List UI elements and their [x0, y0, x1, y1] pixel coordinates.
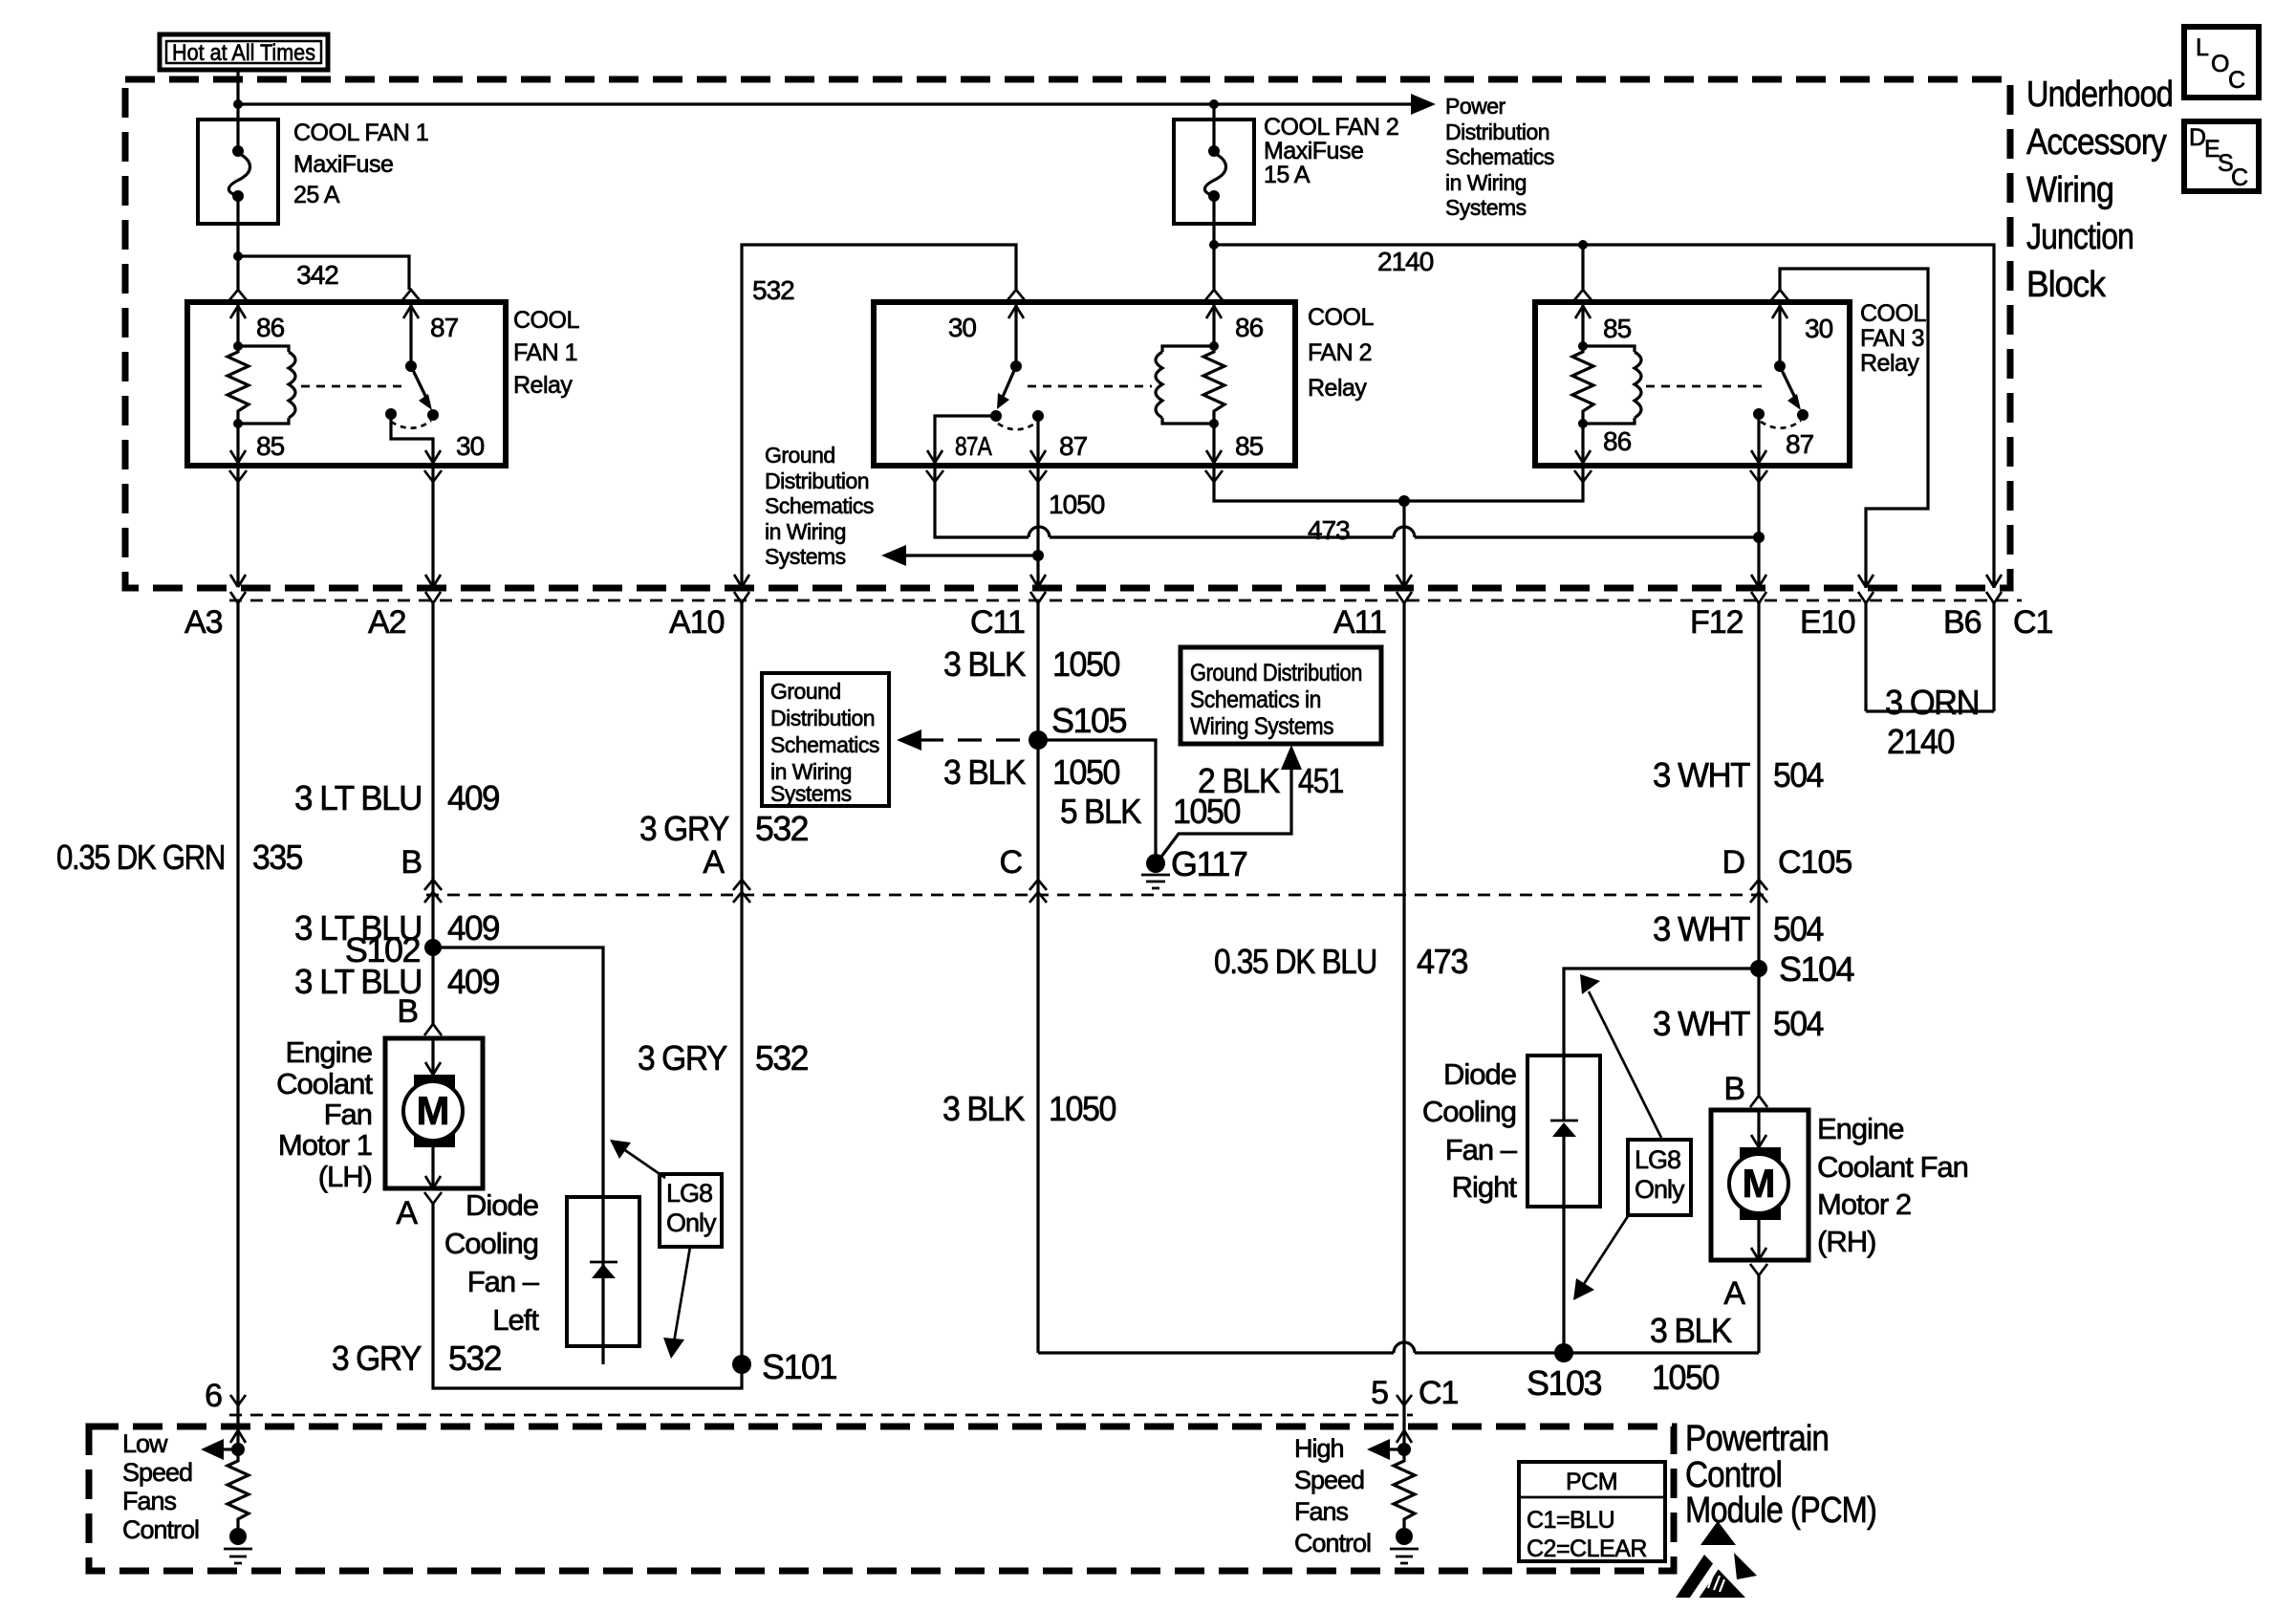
- connector C1 row dashed line: [229, 599, 2022, 602]
- svg-text:Systems: Systems: [770, 781, 852, 806]
- svg-text:87: 87: [430, 313, 459, 342]
- svg-text:Diode: Diode: [466, 1188, 538, 1222]
- svg-text:5: 5: [1371, 1375, 1388, 1411]
- svg-text:COOL FAN 2: COOL FAN 2: [1264, 114, 1398, 141]
- svg-text:342: 342: [296, 260, 338, 290]
- K2 pin 86 terminal: [1205, 290, 1264, 346]
- hop over A11 wire: [1394, 527, 1415, 537]
- svg-text:Wiring: Wiring: [2026, 170, 2113, 210]
- svg-text:Underhood: Underhood: [2026, 75, 2173, 115]
- label 3 WHT 504 (below D): [1653, 909, 1823, 948]
- svg-text:C: C: [2231, 164, 2248, 191]
- svg-text:409: 409: [447, 962, 499, 1001]
- label 0.35 DK GRN 335: [56, 838, 302, 877]
- svg-text:C1: C1: [2013, 604, 2053, 641]
- PCM connector legend box: [1519, 1462, 1665, 1562]
- node: junction on 2140 at relay3 coil drop: [1578, 240, 1588, 250]
- inline connector B (C105): [401, 844, 442, 947]
- svg-text:Engine: Engine: [1817, 1112, 1904, 1145]
- svg-text:87: 87: [1786, 429, 1814, 459]
- inline connector D (C105): [1722, 844, 1852, 903]
- relay K3: COOL FAN 3 Relay: [1535, 302, 1850, 466]
- splice S104: [1750, 949, 1854, 989]
- svg-text:Junction: Junction: [2026, 217, 2134, 257]
- K3 switch: [1646, 360, 1809, 428]
- ground G117: [1141, 844, 1247, 888]
- hop over C11 wire: [1029, 527, 1050, 537]
- arrow to Power Distribution Schematics: [1411, 94, 1436, 115]
- svg-text:A2: A2: [368, 604, 406, 641]
- Hot at All Times label box: [160, 34, 328, 70]
- svg-text:COOL: COOL: [513, 307, 579, 334]
- node: junction on 473 to A11: [1398, 495, 1410, 507]
- label motor M1: [276, 1035, 373, 1193]
- K3 pin 30 terminal: [1771, 290, 1833, 366]
- node: junction of 87A line on F12 wire: [1753, 532, 1765, 543]
- svg-text:532: 532: [752, 275, 794, 305]
- svg-text:Speed: Speed: [122, 1458, 192, 1487]
- label 5 BLK 1050: [1060, 792, 1240, 831]
- label 3 LT BLU 409 (below S102): [294, 962, 499, 1001]
- K3 coil (resistor + winding in parallel): [1572, 341, 1641, 428]
- svg-text:Left: Left: [492, 1303, 539, 1337]
- svg-text:3 ORN: 3 ORN: [1885, 683, 1979, 722]
- svg-text:504: 504: [1773, 1004, 1823, 1043]
- svg-text:M: M: [1743, 1161, 1776, 1206]
- svg-text:Fans: Fans: [1294, 1497, 1349, 1526]
- svg-text:Cooling: Cooling: [444, 1227, 538, 1260]
- svg-text:Relay: Relay: [1308, 375, 1367, 402]
- svg-text:S101: S101: [762, 1347, 837, 1386]
- svg-text:C1: C1: [1419, 1375, 1459, 1411]
- wire: battery feed from Hot at All Times down to fuse 1: [236, 69, 239, 120]
- note: Ground Distribution Schematics in Wiring Systems (left): [765, 443, 874, 569]
- svg-text:Schematics: Schematics: [1445, 144, 1554, 169]
- junction block exit arrows at dashed border: [230, 575, 2002, 587]
- svg-text:A3: A3: [184, 604, 223, 641]
- label diode D2: [1422, 1057, 1518, 1204]
- svg-text:Module (PCM): Module (PCM): [1685, 1491, 1876, 1531]
- svg-text:Coolant: Coolant: [276, 1067, 373, 1100]
- svg-text:(LH): (LH): [318, 1160, 372, 1193]
- svg-text:3 BLK: 3 BLK: [1650, 1311, 1732, 1350]
- wire: motor 1 pin A to S101: [433, 1204, 742, 1388]
- wire: drop to relay3 pin 85: [1581, 245, 1584, 290]
- wire: ground distribution pointer line: [904, 554, 1038, 556]
- arrow up on 451: [1281, 745, 1302, 770]
- resistor in PCM (low speed driver): [227, 1449, 249, 1528]
- K2 pin 87 terminal: [1029, 416, 1088, 482]
- note box LG8 Only (left): [660, 1174, 722, 1247]
- svg-text:85: 85: [256, 431, 285, 461]
- svg-text:B6: B6: [1943, 604, 1982, 641]
- svg-text:L: L: [2196, 34, 2209, 61]
- svg-text:S104: S104: [1779, 949, 1854, 989]
- svg-text:409: 409: [447, 778, 499, 817]
- svg-text:(RH): (RH): [1817, 1225, 1875, 1258]
- svg-text:Only: Only: [666, 1208, 717, 1237]
- svg-text:3 GRY: 3 GRY: [638, 1038, 727, 1078]
- svg-text:Accessory: Accessory: [2026, 122, 2167, 163]
- svg-text:A11: A11: [1333, 604, 1386, 641]
- svg-text:30: 30: [1805, 314, 1833, 343]
- svg-text:Right: Right: [1452, 1170, 1518, 1204]
- relay K1: COOL FAN 1 Relay: [187, 302, 506, 466]
- svg-text:Motor 1: Motor 1: [278, 1128, 372, 1162]
- svg-text:5 BLK: 5 BLK: [1060, 792, 1141, 831]
- label 3 GRY 532 (above A): [639, 809, 808, 848]
- svg-text:C1=BLU: C1=BLU: [1527, 1507, 1614, 1534]
- svg-text:1050: 1050: [1052, 752, 1119, 792]
- note box: Ground Distribution Schematics in Wiring Systems (right): [1180, 647, 1381, 744]
- wire 3 ORN 2140 loop E10 to B6: [1866, 709, 1994, 712]
- wire: 473 junction down to A11: [1402, 501, 1405, 586]
- svg-text:D: D: [1722, 844, 1744, 881]
- svg-text:15 A: 15 A: [1264, 162, 1310, 188]
- pointer arrow from LG8 left box down to S101 wire: [663, 1247, 690, 1359]
- svg-text:30: 30: [948, 313, 977, 342]
- note box LG8 Only (right): [1628, 1140, 1691, 1215]
- K2 coil (winding + resistor in parallel): [1156, 341, 1224, 428]
- diode D1 box: Diode Cooling Fan Left: [567, 1197, 639, 1364]
- K2 pin 87A terminal: [926, 416, 996, 482]
- wire: A2 below S102 to motor 1 pin B: [431, 947, 434, 1024]
- svg-text:532: 532: [448, 1339, 501, 1378]
- splice S103: [1527, 1343, 1602, 1403]
- arrow toward ground distribution note box: [897, 729, 921, 751]
- svg-text:85: 85: [1235, 431, 1264, 461]
- wire 2140 horizontal to relay 3 and B6: [1214, 245, 1994, 588]
- svg-text:Hot at All Times: Hot at All Times: [172, 40, 315, 66]
- svg-text:A: A: [703, 844, 725, 881]
- Underhood Accessory Wiring Junction Block dashed boundary: [125, 79, 2010, 588]
- wire: K2 pin 87 down to C11: [1036, 466, 1039, 586]
- svg-text:C: C: [999, 844, 1022, 881]
- connector C11: [970, 592, 1046, 740]
- svg-text:Distribution: Distribution: [770, 706, 875, 730]
- connector E10: [1800, 592, 1874, 711]
- wire: F12 below S104 to motor 2 pin B: [1757, 969, 1760, 1096]
- wire: K2 pin 87A down then right to F12 column: [935, 466, 1759, 537]
- svg-text:1050: 1050: [1049, 1089, 1116, 1128]
- svg-text:3 LT BLU: 3 LT BLU: [294, 778, 422, 817]
- label Underhood Accessory Wiring Junction Block: [2026, 75, 2173, 305]
- connector A3: [184, 592, 246, 1396]
- svg-text:COOL FAN 1: COOL FAN 1: [293, 120, 428, 146]
- svg-text:335: 335: [252, 838, 302, 877]
- hop over A11 wire on 1050 run: [1394, 1342, 1415, 1353]
- connector B6: [1943, 592, 2002, 711]
- svg-text:E10: E10: [1800, 604, 1855, 641]
- pointer arrow from LG8 right box up to S104 branch: [1580, 974, 1661, 1138]
- svg-text:Engine: Engine: [285, 1035, 372, 1069]
- svg-text:Schematics in: Schematics in: [1190, 686, 1321, 713]
- svg-text:Relay: Relay: [1860, 350, 1919, 377]
- PCM low speed fans control input: [201, 1396, 246, 1460]
- connector pin 6 into PCM: [205, 1378, 246, 1414]
- note box: Ground Distribution Schematics in Wiring Systems (small, left): [762, 673, 889, 806]
- node: junction on feed at power line: [233, 99, 243, 109]
- svg-text:FAN 2: FAN 2: [1308, 339, 1372, 366]
- label relay K2: [1308, 304, 1374, 402]
- svg-text:Wiring Systems: Wiring Systems: [1190, 713, 1333, 740]
- node: ground distribution tap on C11 wire: [1032, 550, 1044, 561]
- label 3 BLK 1050 (middle, C11 lower): [942, 1089, 1116, 1128]
- svg-text:M: M: [417, 1088, 450, 1133]
- K1 coil (resistor + winding in parallel): [227, 341, 295, 428]
- svg-text:Cooling: Cooling: [1422, 1095, 1516, 1128]
- svg-text:Schematics: Schematics: [765, 493, 874, 518]
- svg-text:87: 87: [1059, 431, 1088, 461]
- PCM connector row dashed line: [229, 1414, 1413, 1417]
- label relay K1: [513, 307, 579, 399]
- connector pin 5 C1 into PCM: [1371, 1375, 1458, 1411]
- svg-text:532: 532: [755, 1038, 808, 1078]
- connector C105 row dashed line: [426, 894, 1768, 897]
- svg-text:504: 504: [1773, 909, 1823, 948]
- svg-text:Control: Control: [1685, 1455, 1782, 1495]
- svg-text:Fans: Fans: [122, 1487, 177, 1515]
- svg-text:COOL: COOL: [1308, 304, 1374, 331]
- inline connector C (C105): [999, 844, 1047, 903]
- svg-text:3 BLK: 3 BLK: [942, 1089, 1025, 1128]
- wire 532: relay2 pin 30 feed from junction block: [742, 245, 1016, 588]
- svg-text:Block: Block: [2026, 265, 2107, 305]
- svg-text:Fan –: Fan –: [467, 1265, 540, 1298]
- splice S102: [345, 930, 442, 969]
- svg-text:2 BLK: 2 BLK: [1198, 761, 1280, 800]
- svg-text:Control: Control: [1294, 1529, 1371, 1557]
- svg-text:Systems: Systems: [765, 544, 846, 569]
- svg-text:87A: 87A: [955, 431, 992, 461]
- svg-text:F12: F12: [1690, 604, 1744, 641]
- K1 pin 85 terminal: [229, 424, 285, 482]
- label Powertrain Control Module (PCM): [1685, 1419, 1876, 1531]
- svg-text:G117: G117: [1171, 844, 1247, 883]
- node: junction below fuse 2 (wire 2140): [1209, 240, 1219, 250]
- wire: C11 1050 below S105: [1036, 740, 1039, 1353]
- wire: relay3 pin 30 loop to E10: [1780, 269, 1928, 588]
- K3 pin 85 terminal: [1574, 290, 1632, 346]
- wire: S102 branch to diode cooling fan left: [433, 947, 603, 1271]
- svg-text:86: 86: [1603, 426, 1632, 456]
- svg-text:2140: 2140: [1377, 247, 1434, 276]
- node: junction below fuse 1 (wire 342 tap): [233, 251, 243, 261]
- arrow to Ground Distribution Schematics (left): [881, 545, 906, 566]
- splice S101: [732, 1347, 837, 1386]
- svg-text:3 BLK: 3 BLK: [943, 752, 1026, 792]
- svg-text:3 BLK: 3 BLK: [943, 644, 1026, 684]
- svg-text:3 WHT: 3 WHT: [1653, 1004, 1750, 1043]
- svg-text:3 GRY: 3 GRY: [639, 809, 729, 848]
- svg-text:3 WHT: 3 WHT: [1653, 755, 1750, 795]
- svg-text:Low: Low: [122, 1429, 168, 1458]
- label 3 LT BLU 409 (below B): [294, 908, 499, 947]
- wire 2 BLK 451 from G117: [1161, 755, 1291, 857]
- svg-text:LG8: LG8: [1635, 1145, 1680, 1174]
- label motor M2: [1817, 1112, 1968, 1258]
- svg-text:Distribution: Distribution: [1445, 120, 1549, 144]
- svg-text:O: O: [2211, 51, 2229, 77]
- svg-text:Power: Power: [1445, 94, 1506, 119]
- svg-text:Distribution: Distribution: [765, 468, 869, 493]
- node: junction at fuse 2 drop: [1209, 99, 1219, 109]
- note: High Speed Fans Control: [1294, 1434, 1371, 1557]
- svg-text:Only: Only: [1635, 1175, 1685, 1204]
- svg-text:0.35 DK GRN: 0.35 DK GRN: [56, 838, 225, 877]
- K1 pin 30 terminal: [391, 414, 485, 482]
- svg-text:6: 6: [205, 1378, 222, 1414]
- svg-text:30: 30: [456, 431, 485, 461]
- svg-text:Control: Control: [122, 1515, 199, 1544]
- svg-text:Relay: Relay: [513, 372, 573, 399]
- wire 5 BLK 1050 branch from S105 to G117: [1038, 740, 1156, 858]
- inline connector A (C105): [703, 844, 750, 903]
- label 3 LT BLU 409 (above B): [294, 778, 499, 817]
- svg-text:451: 451: [1298, 761, 1343, 800]
- svg-text:A: A: [396, 1195, 418, 1231]
- fuse F1: COOL FAN 1 MaxiFuse 25 A: [198, 120, 278, 256]
- fuse F2: COOL FAN 2 MaxiFuse 15 A: [1174, 120, 1254, 245]
- svg-text:Fan: Fan: [324, 1098, 372, 1131]
- label 0.35 DK BLU 473: [1214, 942, 1467, 981]
- K3 pin 86 terminal: [1574, 424, 1632, 482]
- ESD sensitive symbol: [1676, 1521, 1757, 1601]
- svg-text:MaxiFuse: MaxiFuse: [293, 151, 393, 178]
- resistor in PCM (high speed driver): [1394, 1449, 1415, 1528]
- svg-text:504: 504: [1773, 755, 1823, 795]
- note: Power Distribution Schematics in Wiring Systems: [1445, 94, 1554, 220]
- svg-text:409: 409: [447, 908, 499, 947]
- connector A2: [368, 592, 441, 872]
- connector A11: [1333, 592, 1412, 1396]
- wire: dashed ground distribution feed to S105: [920, 738, 1038, 741]
- diode D2 box: Diode Cooling Fan Right: [1527, 1056, 1600, 1353]
- splice S105: [1029, 701, 1127, 750]
- wire: K1 pin 30 to connector A2: [431, 466, 434, 586]
- wire: motor 2 pin A down to 1050 line: [1757, 1275, 1760, 1353]
- label 2 BLK 451: [1198, 761, 1343, 800]
- svg-text:0.35 DK BLU: 0.35 DK BLU: [1214, 942, 1376, 981]
- svg-text:FAN 3: FAN 3: [1860, 325, 1924, 352]
- label 3 BLK 1050 (bottom right): [1650, 1311, 1732, 1397]
- wire: power feed horizontal to fuse 2 and power distribution arrow: [238, 102, 1422, 105]
- svg-text:86: 86: [256, 313, 285, 342]
- wire: K3 pin 87 down to F12: [1757, 466, 1760, 586]
- wire 342 branch to relay1 pin 87: [238, 256, 409, 290]
- svg-text:A: A: [1723, 1275, 1745, 1312]
- pointer arrow from LG8 right box down to S103 wire: [1573, 1213, 1630, 1300]
- label 3 WHT 504 (above D): [1653, 755, 1823, 795]
- svg-text:C: C: [2228, 67, 2245, 94]
- svg-text:473: 473: [1417, 942, 1467, 981]
- label 3 WHT 504 (below S104): [1653, 1004, 1823, 1043]
- wire 1050: C11 bottom run to S103 and motor 2 A: [1038, 1351, 1759, 1354]
- svg-text:Systems: Systems: [1445, 195, 1527, 220]
- label 3 BLK 1050 (top, C11): [943, 644, 1119, 684]
- LOC reference box: [2184, 27, 2259, 98]
- svg-text:1050: 1050: [1049, 490, 1105, 519]
- svg-text:C105: C105: [1778, 844, 1852, 881]
- svg-text:B: B: [401, 844, 422, 881]
- svg-text:25 A: 25 A: [293, 182, 340, 208]
- label fuse F1: [293, 120, 428, 208]
- wire: fuse2 output down to relay2 pin 86: [1212, 245, 1215, 290]
- svg-text:PCM: PCM: [1566, 1469, 1617, 1495]
- svg-text:1050: 1050: [1052, 644, 1119, 684]
- ground inside PCM (low): [224, 1528, 252, 1563]
- motor M1: Engine Coolant Fan Motor 1 (LH): [385, 1024, 483, 1204]
- K1 pin 86 terminal: [229, 290, 285, 346]
- svg-text:532: 532: [755, 809, 808, 848]
- label fuse F2: [1264, 114, 1398, 188]
- svg-text:D: D: [2189, 124, 2206, 151]
- svg-text:86: 86: [1235, 313, 1264, 342]
- svg-text:Speed: Speed: [1294, 1466, 1364, 1494]
- label 3 GRY 532 (bottom, motor 1 A wire): [332, 1339, 501, 1378]
- connector F12: [1690, 592, 1766, 969]
- wire 473: K2 pin 85 to relay3 pin 86: [1214, 466, 1583, 501]
- pointer arrow from LG8 left box up to S102 branch: [610, 1140, 665, 1178]
- K1 pin 87 terminal: [402, 290, 459, 366]
- svg-text:B: B: [397, 993, 418, 1030]
- svg-text:Fan –: Fan –: [1445, 1133, 1518, 1166]
- svg-text:Schematics: Schematics: [770, 732, 879, 757]
- svg-text:2140: 2140: [1887, 722, 1954, 761]
- svg-text:Diode: Diode: [1443, 1057, 1516, 1091]
- svg-text:in Wiring: in Wiring: [765, 519, 846, 544]
- PCM high speed fans control input: [1367, 1396, 1412, 1460]
- svg-text:S103: S103: [1527, 1363, 1602, 1403]
- svg-text:C2=CLEAR: C2=CLEAR: [1527, 1535, 1647, 1562]
- svg-text:Coolant Fan: Coolant Fan: [1817, 1150, 1968, 1184]
- relay K2: COOL FAN 2 Relay: [874, 302, 1295, 466]
- K2 pin 85 terminal: [1205, 424, 1264, 482]
- svg-text:C11: C11: [970, 604, 1025, 641]
- svg-text:1050: 1050: [1652, 1358, 1719, 1397]
- svg-text:85: 85: [1603, 314, 1632, 343]
- svg-text:B: B: [1723, 1071, 1744, 1107]
- wire: fuse1 output down to relay1 pin 86: [236, 256, 239, 290]
- ground inside PCM (high): [1390, 1528, 1419, 1563]
- svg-text:S105: S105: [1051, 701, 1127, 740]
- svg-text:Ground: Ground: [770, 679, 841, 704]
- svg-text:3 GRY: 3 GRY: [332, 1339, 422, 1378]
- svg-text:A10: A10: [669, 604, 725, 641]
- label 3 GRY 532 (on A10 lower): [638, 1038, 808, 1078]
- wire: S104 branch to diode cooling fan right: [1564, 969, 1759, 1121]
- motor M2: Engine Coolant Fan Motor 2 (RH): [1711, 1096, 1809, 1275]
- wire: K1 pin 85 to connector A3: [236, 466, 239, 586]
- label diode D1: [444, 1188, 540, 1337]
- svg-text:High: High: [1294, 1434, 1344, 1463]
- svg-text:Motor 2: Motor 2: [1817, 1187, 1911, 1221]
- DESC reference box: [2184, 121, 2259, 191]
- label relay K3: [1860, 300, 1926, 377]
- svg-text:COOL: COOL: [1860, 300, 1926, 327]
- wire: drop into fuse 2: [1212, 104, 1215, 120]
- svg-text:MaxiFuse: MaxiFuse: [1264, 138, 1363, 164]
- note: Low Speed Fans Control: [122, 1429, 199, 1544]
- K2 pin 30 terminal: [948, 290, 1025, 366]
- svg-text:LG8: LG8: [666, 1179, 712, 1208]
- K2 switch: [990, 360, 1152, 429]
- svg-text:in Wiring: in Wiring: [1445, 170, 1527, 195]
- svg-text:473: 473: [1308, 515, 1350, 545]
- svg-text:FAN 1: FAN 1: [513, 339, 577, 366]
- svg-text:3 WHT: 3 WHT: [1653, 909, 1750, 948]
- svg-text:Ground: Ground: [765, 443, 835, 468]
